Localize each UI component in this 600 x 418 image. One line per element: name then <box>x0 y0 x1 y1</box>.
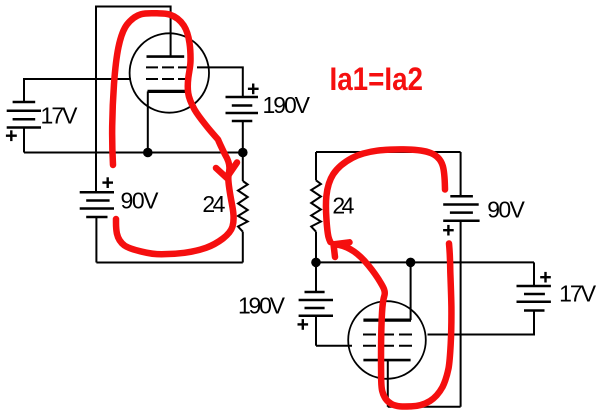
svg-text:90V: 90V <box>121 188 160 214</box>
svg-text:190V: 190V <box>238 293 286 319</box>
svg-text:190V: 190V <box>263 92 311 118</box>
svg-text:17V: 17V <box>41 103 79 129</box>
svg-text:24: 24 <box>332 192 354 218</box>
svg-text:24: 24 <box>202 191 225 217</box>
svg-text:Ia1=Ia2: Ia1=Ia2 <box>330 61 424 97</box>
svg-text:17V: 17V <box>559 281 597 307</box>
svg-text:90V: 90V <box>487 197 525 223</box>
